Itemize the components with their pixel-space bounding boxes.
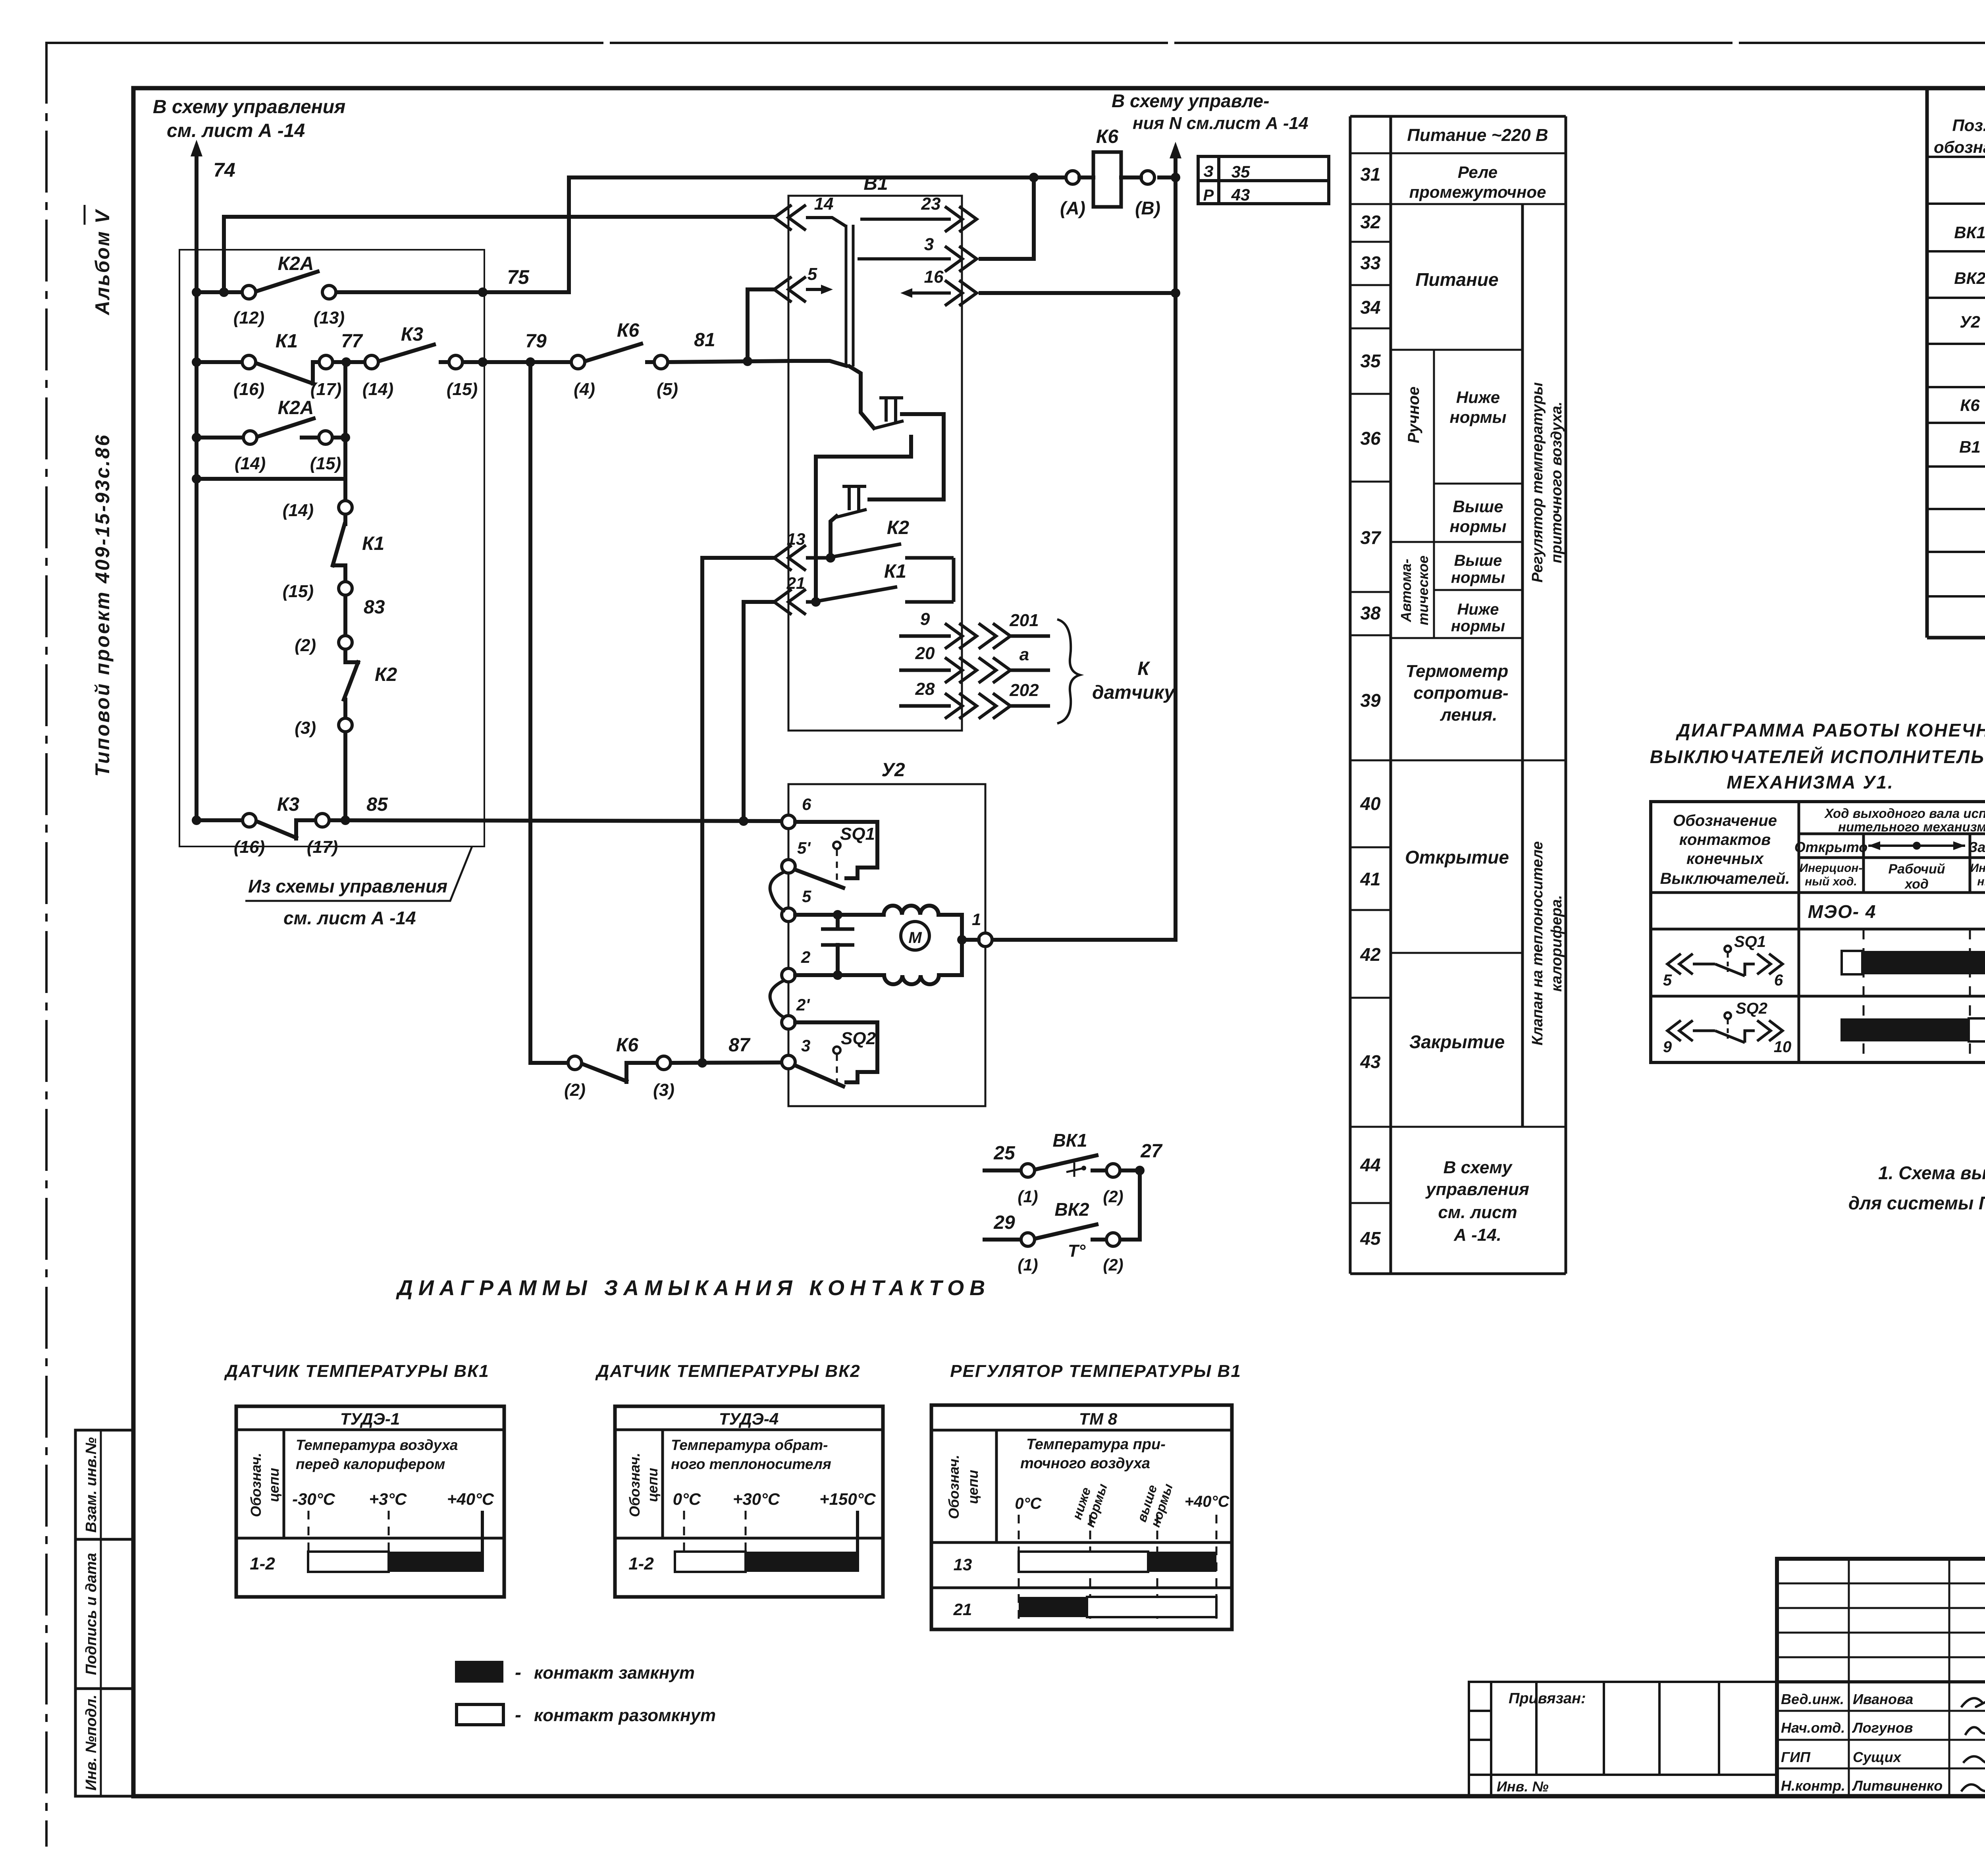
- svg-text:см. лист А -14: см. лист А -14: [167, 120, 305, 141]
- contact K2A terminal (13): [322, 285, 336, 299]
- B1 pin 23: [860, 218, 951, 221]
- svg-text:Рабочий: Рабочий: [1888, 862, 1945, 877]
- svg-text:(12): (12): [233, 308, 264, 328]
- svg-text:5: 5: [802, 887, 811, 906]
- svg-text:нормы: нормы: [1451, 569, 1505, 586]
- svg-text:контакт разомкнут: контакт разомкнут: [534, 1706, 716, 1725]
- B1 pin 14: [774, 205, 806, 230]
- actuator U2 box: [788, 784, 985, 1106]
- svg-text:Н.контр.: Н.контр.: [1781, 1778, 1845, 1794]
- relay coil K6: [1093, 152, 1121, 207]
- svg-text:20: 20: [915, 644, 935, 663]
- regulator B1 box: [788, 196, 962, 731]
- junction 16wire/bus: [1171, 288, 1180, 298]
- svg-text:25: 25: [993, 1143, 1016, 1164]
- svg-text:Закрыто: Закрыто: [1968, 839, 1985, 855]
- terminal (1) BK2: [1021, 1233, 1035, 1246]
- junction bus/branch1206: [192, 474, 201, 484]
- svg-text:К6: К6: [617, 320, 640, 341]
- junction chain/85: [341, 816, 350, 825]
- svg-text:Логунов: Логунов: [1852, 1720, 1913, 1736]
- svg-text:ТМ 8: ТМ 8: [1079, 1409, 1118, 1428]
- svg-text:Температура при-: Температура при-: [1026, 1436, 1166, 1453]
- svg-text:13: 13: [787, 530, 806, 548]
- svg-text:(14): (14): [283, 501, 314, 520]
- svg-text:МЕХАНИЗМА У1.: МЕХАНИЗМА У1.: [1727, 772, 1894, 792]
- B1 pin 9: [899, 634, 951, 638]
- junction 77 node: [341, 357, 351, 367]
- U2 terminal 2p: [782, 1016, 795, 1029]
- svg-text:23: 23: [921, 194, 941, 214]
- svg-text:13: 13: [954, 1555, 972, 1574]
- svg-text:(14): (14): [235, 454, 266, 473]
- svg-text:ВЫКЛЮЧАТЕЛЕЙ ИСПОЛНИТЕЛЬНОГО: ВЫКЛЮЧАТЕЛЕЙ ИСПОЛНИТЕЛЬНОГО: [1650, 746, 1985, 767]
- wire 3 output riser: [981, 257, 1034, 261]
- terminal (5) K6: [654, 355, 668, 369]
- svg-text:0°С: 0°С: [1015, 1495, 1042, 1512]
- svg-text:6: 6: [802, 795, 811, 814]
- contact K2A blade: [256, 272, 318, 291]
- svg-text:К1: К1: [362, 533, 384, 554]
- svg-text:Выключателей.: Выключателей.: [1660, 870, 1790, 887]
- terminal (14) K3: [365, 355, 378, 369]
- wire 16 to bus: [981, 291, 1176, 295]
- outer sheet border left (dash-dot): [45, 43, 48, 1845]
- U2 wire from 2 with lower winding: [795, 973, 884, 977]
- U1 SQ2 bar: [1840, 1018, 1969, 1041]
- svg-text:В схему управления: В схему управления: [153, 96, 345, 118]
- U2 capacitor stubs: [836, 915, 840, 928]
- terminal (B): [1141, 171, 1154, 184]
- U2 terminal 2: [782, 968, 795, 982]
- U2 terminal 1: [979, 933, 992, 947]
- junction bus/85: [192, 816, 201, 825]
- svg-text:5: 5: [1663, 972, 1672, 989]
- terminal (2) chain: [339, 636, 352, 649]
- B1 pin 20: [899, 669, 951, 672]
- svg-text:ДИАГРАММЫ ЗАМЫКАНИЯ КОНТА: ДИАГРАММЫ ЗАМЫКАНИЯ КОНТАКТОВ: [396, 1276, 991, 1300]
- svg-text:5: 5: [807, 264, 817, 284]
- B1 pin 3: [858, 257, 951, 260]
- U2 jumper 5p-5: [770, 871, 785, 911]
- svg-text:тическое: тическое: [1415, 555, 1431, 625]
- svg-text:43: 43: [1360, 1051, 1381, 1072]
- svg-text:Инерцион-: Инерцион-: [1970, 862, 1985, 875]
- svg-text:Регулятор температуры: Регулятор температуры: [1529, 382, 1546, 583]
- vertical signal table: [1350, 116, 1566, 1274]
- stamp side table Privyazan: [1469, 1682, 1777, 1796]
- svg-text:конечных: конечных: [1686, 850, 1764, 868]
- U2 terminal 3: [782, 1055, 795, 1069]
- terminal (17) K3-2: [316, 814, 329, 827]
- svg-text:Типовой проект 409-15-93с.86: Типовой проект 409-15-93с.86: [91, 434, 114, 777]
- T actuator arrow BK1: [1066, 1163, 1084, 1177]
- B1 pin 21: [774, 589, 806, 615]
- svg-text:Термометр: Термометр: [1406, 661, 1508, 681]
- svg-text:ВК2: ВК2: [1954, 269, 1985, 287]
- svg-text:ВК1: ВК1: [1954, 223, 1985, 242]
- svg-text:ный ход: ный ход: [1977, 875, 1985, 888]
- svg-text:Инерцион-: Инерцион-: [1800, 862, 1863, 875]
- mini diagram BK2 row: [985, 1238, 1021, 1242]
- svg-text:(1): (1): [1018, 1187, 1038, 1206]
- svg-text:(15): (15): [283, 582, 314, 601]
- svg-text:РЕГУЛЯТОР ТЕМПЕРАТУРЫ В1: РЕГУЛЯТОР ТЕМПЕРАТУРЫ В1: [950, 1361, 1241, 1381]
- wire right bus x=2961: [1174, 149, 1178, 940]
- svg-text:ВК2: ВК2: [1054, 1199, 1089, 1220]
- terminal (17): [319, 355, 333, 369]
- U1 SQ2 contact symbol: [1667, 1020, 1693, 1041]
- svg-text:35: 35: [1360, 351, 1381, 371]
- svg-text:точного воздуха: точного воздуха: [1020, 1455, 1150, 1472]
- svg-text:Открыто: Открыто: [1794, 839, 1868, 855]
- wire 74 left bus vertical: [195, 147, 198, 820]
- wire line B (to B1 pin 14) y=546: [224, 215, 774, 219]
- junction 21wire/85: [739, 816, 748, 826]
- svg-text:В1: В1: [863, 173, 888, 194]
- margin box Inv N podl: [75, 1689, 133, 1796]
- svg-text:38: 38: [1360, 603, 1381, 623]
- svg-text:14: 14: [814, 194, 834, 214]
- svg-text:К3: К3: [277, 794, 300, 815]
- svg-text:Клапан на теплоносителе: Клапан на теплоносителе: [1529, 841, 1546, 1045]
- svg-text:МЭО- 4: МЭО- 4: [1808, 901, 1877, 922]
- terminal (2) BK1: [1106, 1164, 1120, 1177]
- svg-text:(17): (17): [307, 837, 338, 857]
- wire (3) to 85 rail: [343, 732, 347, 820]
- svg-text:36: 36: [1360, 428, 1381, 449]
- U2 limit switch SQ2: [795, 1022, 877, 1086]
- svg-text:ГИП: ГИП: [1781, 1749, 1811, 1765]
- svg-text:75: 75: [507, 266, 530, 288]
- wire 79 vertical: [528, 362, 532, 1063]
- B1 slider double bar: [846, 225, 853, 366]
- terminal (3) K6-2: [657, 1056, 671, 1070]
- svg-text:см. лист: см. лист: [1438, 1203, 1517, 1222]
- svg-text:(4): (4): [574, 380, 595, 399]
- svg-text:К2А: К2А: [278, 397, 314, 418]
- terminal (14) K2A-2: [243, 431, 257, 444]
- svg-text:Р: Р: [1203, 187, 1214, 204]
- wire line A (to K6 coil) y=447: [569, 175, 1067, 179]
- wire 75 vertical riser: [567, 177, 571, 292]
- contact K2A terminal (12): [242, 285, 256, 299]
- signatures: [1961, 1687, 1985, 1797]
- sensor table B1 TM8: [931, 1405, 1232, 1629]
- B1 pin 28: [899, 704, 951, 708]
- svg-text:(17): (17): [310, 380, 341, 399]
- terminal (A): [1066, 171, 1079, 184]
- svg-text:2: 2: [801, 948, 810, 966]
- svg-text:40: 40: [1360, 793, 1381, 814]
- contact K6-2 blade: [582, 1064, 626, 1081]
- svg-text:сопротив-: сопротив-: [1413, 683, 1508, 703]
- svg-text:3: 3: [801, 1036, 810, 1055]
- svg-text:27: 27: [1140, 1141, 1163, 1162]
- svg-text:Нач.отд.: Нач.отд.: [1781, 1720, 1845, 1736]
- svg-text:44: 44: [1360, 1155, 1380, 1175]
- svg-text:нормы: нормы: [1451, 617, 1505, 635]
- svg-text:К6: К6: [616, 1035, 639, 1056]
- svg-text:промежуточное: промежуточное: [1409, 183, 1546, 201]
- svg-text:К2А: К2А: [278, 253, 314, 274]
- svg-text:В схему управле-: В схему управле-: [1112, 91, 1269, 111]
- svg-text:(16): (16): [234, 837, 265, 857]
- svg-text:42: 42: [1360, 944, 1381, 965]
- svg-text:34: 34: [1360, 297, 1380, 318]
- legend contact open: [457, 1704, 503, 1725]
- svg-text:21: 21: [953, 1600, 972, 1619]
- svg-text:Ход выходного вала испол-: Ход выходного вала испол-: [1824, 806, 1985, 821]
- bus branch y=1206: [197, 477, 345, 481]
- svg-text:+150°С: +150°С: [819, 1490, 876, 1508]
- wire 201 external: [979, 623, 1010, 649]
- svg-text:Питание ~220 В: Питание ~220 В: [1407, 125, 1548, 145]
- wire а external: [979, 657, 1010, 683]
- svg-text:1. Схема выполнена для: 1. Схема выполнена для системы П2,: [1878, 1163, 1985, 1183]
- svg-text:SQ2: SQ2: [1736, 1000, 1767, 1017]
- TM8 bar row 13: [1019, 1552, 1148, 1572]
- svg-text:перед калорифером: перед калорифером: [296, 1456, 445, 1472]
- svg-text:2': 2': [796, 995, 810, 1014]
- svg-text:(5): (5): [657, 380, 678, 399]
- U2 jumper 2-2p: [770, 980, 785, 1018]
- svg-text:+30°С: +30°С: [733, 1490, 780, 1508]
- svg-text:6: 6: [1774, 972, 1783, 989]
- svg-text:0°С: 0°С: [673, 1490, 701, 1508]
- svg-text:ТУДЭ-1: ТУДЭ-1: [340, 1409, 400, 1428]
- terminal (15) K2A-2: [319, 431, 332, 444]
- svg-text:(1): (1): [1018, 1255, 1038, 1274]
- svg-text:У2: У2: [1960, 312, 1980, 331]
- svg-text:-: -: [515, 1662, 521, 1683]
- svg-text:9: 9: [920, 609, 930, 629]
- TM8 bar row 21: [1019, 1597, 1087, 1617]
- svg-text:нормы: нормы: [1449, 517, 1506, 536]
- svg-text:К1: К1: [884, 561, 906, 582]
- svg-text:79: 79: [525, 331, 547, 352]
- B1 internal 81 wire: [792, 361, 846, 366]
- svg-text:(2): (2): [564, 1080, 586, 1100]
- svg-text:5': 5': [797, 839, 811, 857]
- junction 81 riser: [743, 357, 752, 366]
- svg-text:(2): (2): [295, 636, 316, 655]
- svg-text:SQ2: SQ2: [841, 1029, 876, 1048]
- margin box Vzam.inv: [75, 1430, 133, 1539]
- svg-text:87: 87: [728, 1035, 751, 1056]
- wire 85 rail y=2066: [197, 818, 243, 822]
- margin box Podpis i data: [75, 1539, 133, 1689]
- svg-text:Иванова: Иванова: [1853, 1691, 1913, 1707]
- svg-text:Поз.: Поз.: [1952, 116, 1985, 135]
- svg-text:нительного механизма: нительного механизма: [1838, 819, 1985, 834]
- svg-text:К2: К2: [887, 517, 910, 538]
- title block stamp: [1777, 1559, 1985, 1796]
- svg-text:Открытие: Открытие: [1405, 847, 1509, 868]
- svg-text:Сущих: Сущих: [1853, 1749, 1902, 1765]
- terminal (2) BK2: [1106, 1233, 1120, 1246]
- svg-text:Выше: Выше: [1453, 497, 1503, 516]
- contact K1 NC blade: [255, 363, 313, 384]
- U1 SQ1 contact symbol: [1667, 954, 1693, 974]
- svg-text:(14): (14): [362, 380, 393, 399]
- svg-text:(А): (А): [1060, 198, 1085, 218]
- svg-text:Ручное: Ручное: [1405, 386, 1422, 443]
- terminal (15) chain: [339, 582, 352, 595]
- svg-text:1-2: 1-2: [250, 1554, 275, 1573]
- sensor table BK2 TUDE-4: [615, 1406, 883, 1597]
- chain vertical x=870: [343, 362, 347, 501]
- wire K6-2 row / 87 rail: [530, 1061, 568, 1065]
- svg-text:(2): (2): [1103, 1255, 1123, 1274]
- wire 202 external: [979, 693, 1010, 719]
- legend contact closed: [455, 1661, 503, 1683]
- svg-text:+40°С: +40°С: [447, 1490, 494, 1508]
- contact K3-2 NC blade: [256, 821, 296, 838]
- svg-text:Питание: Питание: [1415, 269, 1498, 290]
- svg-text:Обознач.: Обознач.: [946, 1455, 962, 1519]
- svg-text:+3°С: +3°С: [369, 1490, 407, 1508]
- svg-text:Альбом V: Альбом V: [91, 209, 114, 316]
- svg-text:З: З: [1203, 163, 1214, 180]
- U2 wire to terminal 1: [962, 938, 979, 942]
- svg-text:ления.: ления.: [1440, 705, 1497, 725]
- svg-text:Т°: Т°: [1068, 1241, 1086, 1261]
- junction chain/K2A-2: [341, 433, 350, 442]
- svg-text:3: 3: [924, 235, 934, 254]
- thin box Iz skhemy upravleniya: [179, 250, 484, 846]
- svg-text:41: 41: [1360, 869, 1380, 889]
- svg-text:ДИАГРАММА РАБОТЫ КОНЕЧНЫХ: ДИАГРАММА РАБОТЫ КОНЕЧНЫХ: [1675, 720, 1985, 740]
- terminal (4) K6: [571, 355, 585, 369]
- svg-text:Реле: Реле: [1458, 163, 1497, 181]
- svg-text:управления: управления: [1425, 1180, 1529, 1199]
- svg-text:10: 10: [1774, 1038, 1792, 1056]
- svg-text:Обознач.: Обознач.: [626, 1453, 643, 1517]
- svg-text:37: 37: [1360, 527, 1382, 548]
- U1 SQ1 bar: [1842, 951, 1862, 974]
- B1 thermal element T1: [873, 398, 904, 429]
- svg-text:1: 1: [972, 910, 981, 929]
- svg-text:Литвиненко: Литвиненко: [1852, 1778, 1943, 1794]
- svg-text:Вед.инж.: Вед.инж.: [1781, 1691, 1844, 1707]
- svg-text:ДАТЧИК ТЕМПЕРАТУРЫ ВК2: ДАТЧИК ТЕМПЕРАТУРЫ ВК2: [595, 1361, 860, 1381]
- svg-text:31: 31: [1360, 164, 1380, 185]
- svg-text:Температура обрат-: Температура обрат-: [671, 1437, 828, 1453]
- wire (15)-(2): [343, 595, 347, 636]
- svg-text:Ниже: Ниже: [1457, 601, 1499, 618]
- svg-text:9: 9: [1663, 1038, 1672, 1056]
- svg-text:-: -: [515, 1704, 521, 1726]
- svg-text:(15): (15): [310, 454, 341, 473]
- wire K2A-2 row y=1102: [197, 436, 243, 440]
- svg-text:Ниже: Ниже: [1456, 388, 1500, 407]
- terminal (1) BK1: [1021, 1164, 1035, 1177]
- outer sheet border top: [46, 42, 1985, 44]
- contact K3 blade (NO): [378, 345, 434, 361]
- svg-text:Обознач.: Обознач.: [248, 1453, 264, 1517]
- junction 13wire/87: [698, 1058, 707, 1068]
- svg-text:К6: К6: [1960, 396, 1980, 415]
- svg-text:83: 83: [364, 597, 385, 618]
- U2 terminal 5: [782, 908, 795, 922]
- B1 pin 13: [774, 545, 806, 571]
- svg-text:+40°С: +40°С: [1185, 1493, 1230, 1510]
- contact K1 vertical chain: [343, 514, 347, 524]
- svg-text:1-2: 1-2: [628, 1554, 654, 1573]
- brace K datchiku: [1057, 619, 1080, 723]
- svg-text:Инв. №: Инв. №: [1497, 1778, 1549, 1795]
- contact K2 vertical chain: [343, 649, 347, 662]
- svg-text:202: 202: [1009, 681, 1039, 700]
- svg-text:Закрытие: Закрытие: [1409, 1032, 1505, 1052]
- svg-text:М: М: [908, 929, 922, 947]
- U2 wire from 5 with upper winding: [795, 913, 884, 917]
- svg-text:датчику: датчику: [1092, 682, 1176, 703]
- svg-text:В схему: В схему: [1443, 1158, 1513, 1177]
- terminal (14) chain top: [339, 501, 352, 514]
- svg-text:К3: К3: [401, 324, 424, 345]
- svg-text:ния N см.лист А -14: ния N см.лист А -14: [1133, 114, 1309, 133]
- B1 internal slider to T1: [850, 366, 874, 428]
- mini diagram BK1 row: [985, 1155, 1140, 1240]
- svg-text:-30°С: -30°С: [292, 1490, 335, 1508]
- U2 motor M: [901, 922, 929, 950]
- svg-text:201: 201: [1009, 611, 1039, 630]
- component table row lines: [1927, 156, 1985, 158]
- U2 capacitor plates: [821, 929, 854, 945]
- svg-text:а: а: [1019, 645, 1029, 664]
- terminal (2) K6-2: [568, 1056, 582, 1070]
- junction bus/K2A: [192, 287, 201, 297]
- U2 terminal 6: [782, 815, 795, 829]
- svg-text:Выше: Выше: [1454, 552, 1502, 569]
- svg-text:85: 85: [366, 794, 388, 815]
- svg-text:(15): (15): [447, 380, 478, 399]
- B1 pin 16: [900, 288, 912, 298]
- B1 stub branch: [816, 437, 911, 602]
- wire K2A rail y=736: [197, 290, 242, 294]
- leader line Iz skhemy: [245, 846, 472, 901]
- wire 21 vertical: [744, 602, 774, 821]
- svg-text:У2: У2: [881, 760, 905, 781]
- junction bus/K2A-2: [192, 433, 201, 442]
- svg-text:35: 35: [1231, 162, 1250, 181]
- svg-text:(16): (16): [233, 380, 264, 399]
- terminal (15) K3: [449, 355, 463, 369]
- B1 pin 5: [774, 277, 806, 302]
- svg-text:ного теплоносителя: ного теплоносителя: [671, 1456, 831, 1472]
- svg-text:контакт замкнут: контакт замкнут: [534, 1663, 695, 1683]
- svg-text:81: 81: [694, 330, 715, 351]
- svg-text:Температура воздуха: Температура воздуха: [296, 1437, 458, 1453]
- U1 table frame: [1651, 802, 1985, 1062]
- U2 terminal 5p: [782, 860, 795, 873]
- svg-text:32: 32: [1360, 212, 1381, 232]
- svg-text:SQ1: SQ1: [840, 824, 875, 844]
- svg-text:для системы П5 схема ан: для системы П5 схема аналогична.: [1848, 1193, 1985, 1213]
- svg-text:нормы: нормы: [1449, 408, 1506, 426]
- svg-text:45: 45: [1360, 1228, 1381, 1249]
- terminal (16): [242, 355, 256, 369]
- svg-text:Привязан:: Привязан:: [1509, 1690, 1586, 1707]
- wire 13 vertical: [702, 558, 774, 1063]
- svg-text:(2): (2): [1103, 1187, 1123, 1206]
- wire riser to B1 pin 5: [746, 289, 750, 361]
- component table frame: [1925, 88, 1929, 638]
- svg-text:В1: В1: [1959, 438, 1981, 456]
- svg-text:калорифера.: калорифера.: [1548, 895, 1565, 992]
